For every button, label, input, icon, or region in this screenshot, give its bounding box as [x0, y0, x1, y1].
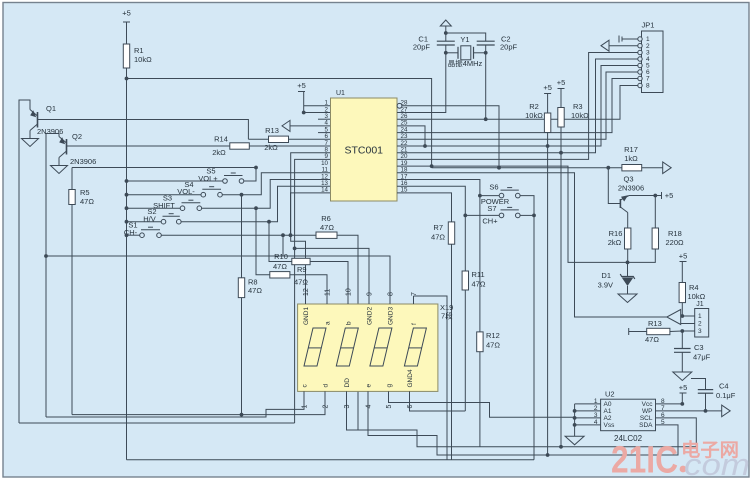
wire R18 to D1 node	[628, 249, 656, 262]
wire pin15 to R7	[397, 193, 452, 222]
wire Q1 emitter to left column	[19, 100, 30, 423]
svg-text:+5: +5	[543, 83, 552, 92]
wire C4 to WP row	[705, 393, 707, 411]
junction S7 bus	[532, 214, 536, 218]
svg-text:SDA: SDA	[639, 422, 653, 429]
svg-text:b: b	[346, 321, 353, 325]
node S1 r6	[290, 234, 292, 236]
junction J1 pin1	[680, 314, 684, 318]
wire S1 stub down	[282, 235, 284, 256]
switch S5 VOL+	[223, 179, 228, 184]
junction S7 R11 column	[463, 214, 467, 218]
svg-text:47Ω: 47Ω	[486, 341, 500, 350]
wire pin21 to JP1 pin4	[397, 59, 640, 153]
wire R7 column down	[451, 244, 453, 460]
JP1 pin numbers	[646, 36, 650, 89]
wire S5 left	[127, 180, 223, 182]
wire R2 column to SDA row	[547, 133, 549, 456]
junction pin28 R17 row	[497, 166, 501, 170]
svg-text:Y1: Y1	[460, 35, 469, 44]
svg-text:A1: A1	[604, 408, 612, 415]
svg-text:8: 8	[388, 292, 395, 296]
wire pin28 down to R17 row	[402, 106, 499, 168]
svg-text:R2: R2	[529, 102, 539, 111]
svg-text:47Ω: 47Ω	[320, 223, 334, 232]
wire pin23 to JP1 pin6	[397, 72, 640, 139]
svg-text:47Ω: 47Ω	[431, 233, 445, 242]
svg-text:2: 2	[698, 321, 702, 328]
svg-text:GND4: GND4	[407, 369, 414, 387]
junction C4 WP	[704, 409, 708, 413]
J1 pin numbers	[698, 313, 702, 335]
svg-text:10kΩ: 10kΩ	[134, 55, 152, 64]
svg-text:+5: +5	[679, 252, 688, 261]
ground under D1	[618, 294, 637, 303]
wire S5 right to pin10	[244, 168, 256, 182]
watermark dot	[680, 466, 687, 473]
wire bottom row Q1 to pin9 col	[19, 422, 295, 424]
junction S2 descend	[267, 220, 271, 224]
wire display pin5 to right	[389, 401, 575, 417]
svg-text:47μF: 47μF	[693, 353, 711, 362]
wire J1 pin3 to C3	[681, 331, 683, 349]
wire S1 jog up to pin14	[291, 193, 331, 235]
wire top to C2	[446, 33, 486, 41]
arrow output WP	[722, 405, 731, 417]
transistor Q3 2N3906	[619, 199, 621, 208]
resistor R13 47ohm	[647, 328, 670, 334]
wire R1 node to R17 row	[127, 79, 432, 168]
svg-text:f: f	[411, 323, 418, 325]
junction S5 pin10	[254, 166, 258, 170]
wire crystal right column	[485, 53, 487, 119]
arrow output R17	[663, 162, 672, 174]
svg-text:Q2: Q2	[72, 132, 82, 141]
wire display pin6 to R11 column	[410, 401, 466, 411]
wire S4 left	[127, 194, 202, 196]
wire U1 pin8 to display pin12	[291, 153, 331, 304]
svg-text:R10: R10	[274, 252, 288, 261]
wire bottom row power	[127, 459, 535, 461]
svg-text:3.9V: 3.9V	[598, 281, 613, 290]
wire R13b to J1 pin3	[670, 330, 682, 333]
wire row to display pin8	[46, 256, 390, 304]
wire S6 right bus down	[520, 196, 534, 460]
junction R2 SDA row	[546, 453, 550, 457]
junction pin2 +5	[302, 111, 306, 115]
wire R4 to J1 pin1	[681, 303, 683, 316]
junction S1 jog	[281, 233, 285, 237]
svg-text:3: 3	[698, 328, 702, 335]
switch S4 VOL-	[201, 192, 206, 197]
svg-text:D1: D1	[601, 271, 611, 280]
buffer triangle at J1 pin2	[667, 310, 681, 325]
resistor R12	[477, 332, 483, 352]
junction S6 pin17 column	[478, 194, 482, 198]
svg-text:GND2: GND2	[367, 307, 374, 325]
junction S3 descend	[254, 206, 258, 210]
svg-text:10kΩ: 10kΩ	[571, 111, 589, 120]
svg-text:U2: U2	[605, 390, 615, 399]
junction pin25 pin22	[423, 144, 427, 148]
wire switch pullup column	[126, 79, 128, 460]
transistor Q2 2N3906	[66, 139, 68, 155]
display digit glyphs	[304, 328, 326, 366]
junction R8 bottom	[240, 413, 244, 417]
switch S7 CH+	[499, 213, 504, 218]
wire pin25 jog to pin22	[397, 126, 425, 146]
wire pin10 row from R5 to S5 jog	[72, 167, 256, 169]
wire +5 to R2	[547, 94, 549, 114]
resistor R8	[238, 278, 244, 298]
wire C4 top	[691, 379, 706, 390]
svg-text:47Ω: 47Ω	[472, 280, 486, 289]
wire pin18 to J1 buffer	[397, 173, 667, 317]
arrow marker U1 pin4	[282, 120, 290, 131]
wire pin24 to JP1 pin7	[397, 79, 640, 133]
U2 left pin wires	[575, 403, 601, 405]
svg-text:JP1: JP1	[642, 21, 655, 30]
wire C1 to node	[445, 45, 447, 53]
junction S2 column	[125, 220, 129, 224]
wire JP1 pin2	[609, 45, 638, 47]
wire R5 to bottom row	[71, 205, 73, 415]
svg-text:6: 6	[407, 405, 414, 409]
wire U1 pin3 stub	[318, 118, 331, 120]
resistor R3	[558, 108, 564, 128]
svg-text:+5: +5	[122, 9, 131, 18]
wire R3 column to SCL row	[560, 127, 562, 447]
svg-text:220Ω: 220Ω	[666, 238, 685, 247]
svg-text:Vss: Vss	[604, 422, 616, 429]
wire U2 SCL loop to display pin3	[347, 391, 697, 446]
wire S1 right to R6	[161, 234, 316, 236]
wire S6 left	[480, 195, 499, 197]
wire J1 pin1	[682, 315, 694, 317]
junction R1 col pin19 row	[430, 164, 434, 168]
svg-text:R14: R14	[214, 135, 228, 144]
svg-text:47Ω: 47Ω	[294, 278, 308, 287]
wire R9 to display pin11	[290, 275, 327, 304]
svg-text:STC001: STC001	[344, 145, 383, 157]
wire U1 pin1	[304, 105, 331, 107]
svg-text:7: 7	[411, 292, 418, 296]
wire pin27 to crystal	[397, 53, 446, 113]
wire R17 row	[432, 167, 622, 169]
wire +5 to U2 Vcc	[681, 393, 683, 404]
junction crystal C2 pin26	[484, 117, 488, 121]
wire S4 column down to R8	[241, 195, 243, 278]
arrow up vcc crystal	[440, 20, 451, 26]
junction S3 column	[125, 206, 129, 210]
ground under U2	[565, 436, 584, 445]
svg-text:C4: C4	[719, 382, 729, 391]
svg-text:R9: R9	[297, 265, 307, 274]
wire S3 column down to R9	[256, 208, 270, 275]
junction S1 column	[125, 233, 129, 237]
wire S2 column down to R10	[269, 222, 292, 262]
junction pin9 col display	[293, 247, 297, 251]
ground under Q2	[51, 166, 68, 174]
svg-text:0.1μF: 0.1μF	[716, 391, 736, 400]
resistor R13 2k	[269, 136, 289, 142]
wire U2 WP to arrow	[656, 410, 722, 412]
svg-text:47Ω: 47Ω	[80, 197, 94, 206]
resistor R10	[292, 258, 310, 264]
junction R3 pin21 row	[559, 151, 563, 155]
wire R6 right down	[337, 235, 358, 430]
resistor R14	[230, 143, 250, 149]
wire Q3 emitter to +5	[629, 195, 655, 197]
wire U2 Vcc	[656, 403, 683, 405]
wire arrow to pin4	[290, 125, 331, 127]
svg-text:47Ω: 47Ω	[645, 335, 659, 344]
svg-text:GND1: GND1	[303, 307, 310, 325]
svg-text:10kΩ: 10kΩ	[525, 111, 543, 120]
svg-text:11: 11	[325, 289, 332, 296]
svg-text:7: 7	[646, 76, 650, 83]
resistor R6	[316, 232, 337, 238]
svg-text:20pF: 20pF	[413, 43, 431, 52]
svg-text:S6: S6	[489, 183, 498, 192]
svg-text:+5: +5	[665, 191, 674, 200]
capacitor C1	[437, 40, 455, 42]
junction D1 node	[626, 261, 630, 265]
wire S2 left	[127, 221, 162, 223]
wire R11 column down	[464, 290, 466, 411]
junction S4 column	[125, 193, 129, 197]
svg-text:10: 10	[346, 288, 353, 296]
wire branch to display pin9	[295, 248, 369, 304]
svg-text:SCL: SCL	[640, 415, 653, 422]
svg-text:47Ω: 47Ω	[248, 286, 262, 295]
display bottom pin stubs and numbers	[303, 391, 305, 401]
junction Y1 left	[444, 51, 448, 55]
svg-text:R12: R12	[486, 331, 500, 340]
resistor R1	[123, 44, 129, 68]
svg-text:20pF: 20pF	[500, 43, 518, 52]
svg-text:10kΩ: 10kΩ	[688, 292, 706, 301]
connector JP1	[642, 31, 664, 93]
svg-text:14: 14	[321, 187, 328, 194]
display X19 7-segment block	[298, 304, 438, 391]
wire U1 pin2	[304, 112, 331, 114]
switch S2 H/V	[161, 219, 166, 224]
junction S4 descend	[240, 193, 244, 197]
wire R1 to node	[126, 68, 128, 79]
wire pin17 column to R12	[479, 196, 481, 332]
wire +5 to R1	[126, 22, 128, 44]
junction S5 column	[125, 179, 129, 183]
svg-text:R4: R4	[689, 283, 699, 292]
svg-text:Q3: Q3	[623, 175, 633, 184]
svg-text:47Ω: 47Ω	[273, 262, 287, 271]
wire display pin2 row	[72, 401, 325, 415]
wire S3 right to pin12	[202, 180, 331, 209]
wire R11 column mid	[464, 215, 466, 271]
wire R17 node to Q3 base	[608, 168, 620, 204]
svg-text:9: 9	[367, 292, 374, 296]
svg-text:R18: R18	[668, 229, 682, 238]
wire pin17 to S6 left	[397, 180, 480, 196]
wire +5 to R4	[681, 262, 683, 283]
capacitor C2	[477, 40, 495, 42]
crystal Y1	[446, 52, 458, 54]
svg-text:2: 2	[323, 405, 330, 409]
resistor R18	[652, 228, 658, 249]
diode D1 zener 3.9V	[627, 262, 629, 276]
svg-text:R11: R11	[472, 270, 485, 279]
wire pin16 to R11 column	[397, 186, 465, 215]
junction R18 top	[653, 194, 657, 198]
svg-text:2N3906: 2N3906	[70, 157, 96, 166]
svg-text:a: a	[325, 321, 332, 325]
pin 28 inversion circle	[397, 103, 402, 108]
display top pin stubs and numbers	[305, 296, 307, 304]
svg-text:1: 1	[698, 313, 702, 320]
IC U2 24LC02	[601, 399, 656, 431]
wire Q2 collector to ground	[58, 158, 60, 166]
wire pin22 to JP1 pin5	[397, 66, 640, 147]
svg-text:Q1: Q1	[46, 104, 56, 113]
svg-text:+5: +5	[297, 81, 306, 90]
svg-text:R17: R17	[624, 145, 638, 154]
wire R13 to U1 pin6	[289, 138, 331, 140]
svg-text:晶振4MHz: 晶振4MHz	[448, 58, 483, 68]
svg-text:CH+: CH+	[482, 217, 498, 226]
junction Y1 right	[484, 51, 488, 55]
wire +5 to R18	[654, 196, 656, 229]
U1 right pin numbers 15-28	[401, 100, 408, 194]
wire S7 left	[465, 214, 499, 216]
switch S1 CH-	[140, 233, 145, 238]
JP1 pin circles	[638, 37, 642, 41]
junction R3 SCL row	[559, 445, 563, 449]
svg-text:d: d	[323, 384, 330, 388]
wire Q3 collector to R16	[627, 213, 629, 229]
wire C3 to ground	[681, 352, 683, 372]
svg-text:4: 4	[366, 405, 373, 409]
resistor R16	[625, 228, 631, 249]
IC U1 STC001	[331, 98, 398, 201]
wire node to R5	[71, 168, 73, 190]
svg-text:WP: WP	[642, 408, 652, 415]
wire D1 to ground	[627, 286, 629, 294]
wire U2 SDA loop to display pin4	[368, 391, 678, 455]
svg-text:Vcc: Vcc	[642, 401, 654, 408]
wire S4 right to pin11	[222, 173, 330, 195]
wire R17 to arrow	[642, 167, 663, 169]
svg-text:DD: DD	[344, 378, 351, 388]
svg-text:12: 12	[303, 288, 310, 296]
svg-text:g: g	[386, 384, 393, 388]
wire S1 left	[127, 234, 140, 236]
wire U1 pin9 column down	[295, 159, 331, 423]
ground under Q1	[22, 139, 39, 147]
U1 left pin numbers 1-14	[321, 100, 328, 194]
wire pin20 to JP1 pin3	[397, 53, 640, 160]
svg-text:R6: R6	[321, 214, 331, 223]
wire Q1 base to R13	[38, 120, 249, 140]
wire R14 to U1 pin7	[249, 145, 330, 147]
junction Vcc +5	[680, 402, 684, 406]
svg-text:R16: R16	[609, 229, 623, 238]
svg-text:A2: A2	[604, 415, 612, 422]
svg-text:J1: J1	[696, 301, 704, 308]
svg-text:1: 1	[302, 405, 309, 409]
wire J1 pin3	[682, 330, 694, 332]
svg-text:3: 3	[344, 405, 351, 409]
wire Q1 jog to R13	[248, 138, 268, 140]
svg-text:电子网: 电子网	[681, 440, 739, 461]
svg-text:R13: R13	[648, 319, 662, 328]
wire U1 pin5 stub	[318, 132, 331, 134]
wire R12 column down	[479, 352, 481, 447]
wire tick to R13b	[629, 331, 647, 333]
junction S1 pin14 jog	[289, 233, 293, 237]
svg-text:R7: R7	[433, 223, 443, 232]
junction R1 node	[125, 77, 129, 81]
svg-text:R5: R5	[80, 188, 90, 197]
capacitor C3	[674, 348, 691, 350]
svg-text:2kΩ: 2kΩ	[264, 143, 278, 152]
svg-text:R13: R13	[265, 126, 279, 135]
wire pin19 to D1 node	[397, 166, 628, 262]
svg-text:S7: S7	[487, 204, 496, 213]
wire Q2 base to R14	[67, 145, 230, 147]
wire Q2 emitter to column	[46, 134, 59, 418]
wire arrow to C1	[445, 26, 447, 41]
wire S7 right	[520, 214, 534, 216]
wire display pin1 loop left	[46, 401, 304, 417]
junction J1 pin3	[680, 329, 684, 333]
U2 pin labels	[594, 398, 665, 429]
svg-text:8: 8	[646, 83, 650, 90]
switch S6 POWER	[499, 193, 504, 198]
resistor R4	[679, 283, 685, 303]
wire Q1 collector to ground	[29, 131, 31, 139]
connector J1	[695, 309, 709, 338]
svg-text:5: 5	[386, 405, 393, 409]
wire R8 column down	[241, 298, 243, 415]
svg-text:C3: C3	[694, 343, 704, 352]
transistor Q1 2N3906	[37, 112, 39, 128]
wire display pin7 up and right	[414, 296, 448, 460]
resistor R7	[448, 222, 454, 244]
wire R10 to display pin10	[310, 262, 348, 305]
resistor R11	[462, 271, 468, 290]
wire R16 to D1 node	[627, 249, 629, 262]
wire C2 to node	[485, 45, 487, 53]
terminal tick R13b	[628, 328, 630, 335]
wire JP1 pin1	[622, 38, 638, 40]
wire S3 left	[127, 207, 181, 209]
resistor R17	[622, 165, 642, 171]
svg-text:2kΩ: 2kΩ	[212, 148, 226, 157]
svg-text:U1: U1	[336, 90, 345, 97]
arrow into JP1 pin2	[601, 40, 609, 51]
svg-text:R3: R3	[573, 102, 583, 111]
svg-text:+5: +5	[679, 383, 688, 392]
svg-text:+5: +5	[557, 78, 566, 87]
resistor R2	[544, 113, 550, 133]
capacitor symbol at JP1 pin1	[618, 36, 620, 43]
junction crystal top	[444, 31, 448, 35]
wire +5 down	[303, 92, 305, 113]
resistor R9	[270, 272, 290, 278]
junction R2 pin22 row	[546, 144, 550, 148]
svg-text:1kΩ: 1kΩ	[624, 154, 638, 163]
